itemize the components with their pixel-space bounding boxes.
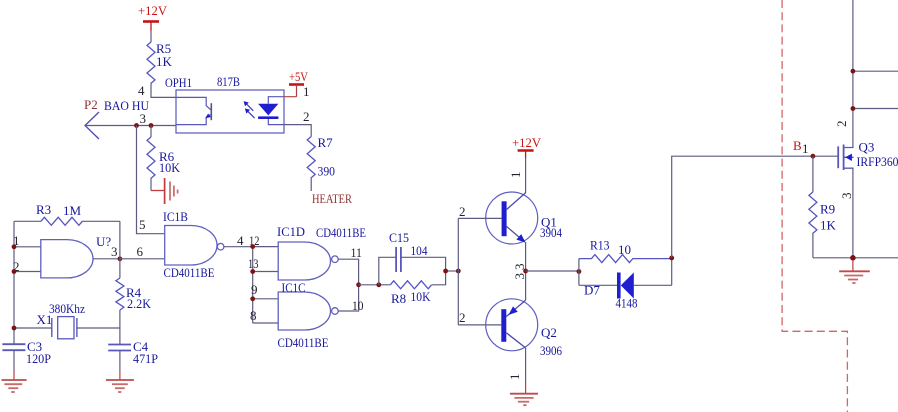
ground under Q3 [839, 271, 870, 283]
ground under C3 [2, 380, 27, 392]
wire drain tap upper [853, 70, 898, 72]
svg-text:B: B [793, 138, 802, 153]
wire R6 to ground [150, 178, 152, 191]
wire node3 vertical rail [119, 221, 121, 344]
svg-text:3: 3 [140, 111, 147, 126]
wire C3 to ground [13, 350, 15, 380]
node pin2 [12, 269, 17, 274]
capacitor C15 [389, 230, 428, 272]
power +12V (left) [138, 3, 168, 31]
wire R5 to opto pin 4 [138, 83, 176, 98]
power +5V [284, 69, 310, 99]
svg-text:Q2: Q2 [541, 325, 557, 340]
resistor R9 [809, 156, 837, 258]
svg-text:817B: 817B [217, 74, 240, 89]
svg-text:1M: 1M [63, 203, 82, 218]
wire U? input stubs [13, 233, 41, 274]
svg-text:IC1D: IC1D [277, 224, 305, 239]
svg-text:R7: R7 [318, 135, 334, 150]
gate IC1C (NAND) [278, 280, 339, 350]
wire node to R6 [150, 126, 152, 138]
svg-text:6: 6 [137, 244, 144, 259]
svg-text:CD4011BE: CD4011BE [278, 335, 329, 350]
svg-text:IC1C: IC1C [282, 280, 306, 295]
svg-text:OPH1: OPH1 [165, 75, 192, 90]
mosfet Q3 IRFP360 [838, 140, 898, 171]
wire pin9 stub [251, 282, 278, 299]
opto-coupler OPH1 817B box [165, 74, 284, 133]
wire mid node to R13/D7 [526, 270, 579, 272]
node outputs join [356, 282, 361, 287]
node mid emitters [523, 269, 528, 274]
svg-text:HEATER: HEATER [312, 191, 352, 206]
node source/ground [850, 255, 856, 271]
node drain tap upper [851, 69, 856, 74]
svg-text:2.2K: 2.2K [127, 296, 152, 311]
wire R13/D7 left riser [578, 259, 580, 286]
node R13/D7 right [669, 256, 674, 261]
svg-text:3904: 3904 [540, 225, 562, 240]
resistor R7 [307, 135, 335, 179]
wire to C15/R8 left node [359, 284, 391, 286]
wire pin13 stub [248, 256, 278, 272]
svg-text:+5V: +5V [289, 69, 308, 84]
ground under C4 [106, 380, 134, 392]
wire R7 to HEATER [311, 177, 352, 206]
svg-text:+12V: +12V [512, 135, 542, 150]
wire X1 right [77, 327, 120, 329]
svg-text:390: 390 [318, 164, 336, 179]
wire Q3 drain up [834, 0, 853, 148]
svg-text:R3: R3 [36, 202, 51, 217]
svg-text:2: 2 [834, 121, 849, 128]
wire U? output to node 3 [93, 244, 120, 259]
transistor Q1 2N3904 [486, 192, 563, 244]
node 3 junction [118, 256, 123, 261]
wire IC1B output pin4 to input rail [224, 233, 260, 248]
node pin1 [12, 244, 17, 249]
svg-text:10K: 10K [159, 160, 181, 175]
svg-text:C15: C15 [389, 230, 409, 245]
svg-text:CD4011BE: CD4011BE [164, 265, 215, 280]
svg-text:U?: U? [96, 234, 111, 249]
svg-text:3: 3 [839, 193, 854, 200]
svg-text:120P: 120P [26, 351, 51, 366]
wire node3 to IC1B pin5 [137, 126, 165, 234]
wire base distribution rail [457, 218, 459, 325]
wire Q3 source down [839, 168, 854, 258]
svg-text:5: 5 [139, 217, 146, 232]
wire bottom rail R9/source [813, 257, 898, 259]
svg-text:471P: 471P [133, 351, 158, 366]
crystal X1 380Khz [37, 301, 86, 339]
node R13/D7 left [577, 269, 582, 274]
opto light arrows [244, 101, 255, 118]
svg-text:X1: X1 [37, 312, 53, 327]
opto LED D [258, 97, 284, 125]
svg-text:10K: 10K [411, 289, 432, 304]
wire opto pin2 to R7 [284, 109, 311, 137]
svg-text:9: 9 [251, 282, 258, 297]
svg-text:10: 10 [618, 242, 631, 257]
node pin13 [250, 269, 255, 274]
capacitor C4 [108, 339, 158, 366]
node C15 left [376, 282, 381, 287]
ground (sideways) under R6 [151, 178, 178, 204]
power +12V (right) [512, 135, 542, 158]
wire up and right to gate of Q3 [672, 156, 838, 258]
wire output pin11 [338, 245, 362, 285]
svg-text:13: 13 [248, 256, 259, 271]
wire tap to base rail [446, 270, 459, 272]
svg-text:2: 2 [459, 310, 466, 325]
resistor R13 [579, 238, 672, 263]
node drain tap lower [851, 106, 856, 111]
wire R13/D7 right riser [671, 258, 673, 285]
transistor Q2 2N3906 [486, 299, 563, 358]
resistor R5 [147, 41, 173, 83]
svg-text:D7: D7 [584, 282, 600, 297]
svg-text:CD4011BE: CD4011BE [316, 225, 366, 240]
svg-text:11: 11 [351, 245, 363, 260]
wire Q1 base [458, 204, 501, 219]
wire pin12 stub [253, 246, 279, 248]
svg-text:IRFP360: IRFP360 [857, 154, 898, 169]
svg-text:R8: R8 [391, 291, 406, 306]
svg-text:1K: 1K [820, 218, 837, 233]
svg-text:R9: R9 [820, 202, 835, 217]
svg-text:4148: 4148 [616, 296, 638, 311]
node C15 right [443, 269, 448, 274]
resistor R4 [116, 278, 152, 311]
svg-text:4: 4 [138, 83, 145, 98]
diode D7 4148 [579, 273, 672, 311]
gate U? (NAND) [41, 234, 112, 278]
resistor R6 [147, 137, 181, 178]
node pin3 junction A [134, 123, 139, 128]
svg-text:10: 10 [352, 298, 364, 313]
wire Q2 base [458, 310, 501, 325]
svg-text:1: 1 [507, 374, 522, 381]
dashed boundary line [782, 0, 847, 412]
svg-text:1: 1 [508, 172, 523, 179]
resistor R3 [36, 202, 82, 225]
wire input distribution rail [252, 247, 254, 323]
svg-text:P2: P2 [84, 97, 98, 112]
wire C15 left riser [379, 257, 396, 285]
node pin3 junction B [149, 123, 154, 128]
wire IC1B pin6 [120, 244, 165, 259]
svg-text:Q3: Q3 [859, 140, 875, 155]
gate IC1B (NAND) [163, 209, 224, 280]
wire +12V to Q1 collector [508, 158, 526, 193]
svg-text:1: 1 [303, 84, 310, 99]
node pin12 [250, 244, 255, 249]
svg-text:4: 4 [237, 233, 244, 248]
svg-text:104: 104 [411, 243, 428, 258]
wire C15 right to riser [401, 257, 446, 271]
wire R8 right riser [432, 271, 446, 285]
capacitor C3 [2, 339, 51, 366]
wire C4 to ground [119, 351, 121, 380]
node X1 left junction [12, 326, 17, 331]
opto phototransistor [176, 97, 211, 124]
svg-text:R13: R13 [590, 238, 610, 253]
svg-text:8: 8 [250, 308, 257, 323]
node base rail tap [456, 269, 461, 274]
gate IC1D (NAND) [277, 224, 366, 280]
svg-text:2: 2 [459, 204, 466, 219]
svg-text:3906: 3906 [540, 343, 562, 358]
wire top rail with R3 [14, 220, 120, 222]
svg-text:1: 1 [802, 141, 809, 156]
svg-text:3: 3 [111, 244, 118, 259]
svg-text:IC1B: IC1B [163, 209, 188, 224]
node pin9 [250, 296, 255, 301]
wire Q2 collector to ground [507, 348, 526, 394]
svg-text:+12V: +12V [138, 3, 168, 18]
wire output pin10 [338, 285, 363, 313]
wire pin8 stub [250, 308, 278, 323]
port P2 BAO HU arrow [84, 97, 150, 139]
wire Q1 emitter to mid node [512, 242, 527, 271]
svg-text:380Khz: 380Khz [49, 301, 85, 316]
node B1 [793, 138, 815, 159]
wire +12V to R5 [150, 31, 152, 43]
wire Q2 emitter to mid node [512, 271, 527, 300]
wire P2 to opto pin3 [85, 111, 176, 126]
wire left vertical rail [13, 221, 15, 344]
wire drain tap lower [853, 108, 898, 110]
svg-text:2: 2 [303, 109, 310, 124]
ground under Q2 [510, 394, 538, 406]
svg-text:3: 3 [512, 273, 527, 280]
svg-text:1K: 1K [156, 54, 173, 69]
resistor R8 [390, 281, 431, 306]
wire X1 left [14, 327, 52, 329]
